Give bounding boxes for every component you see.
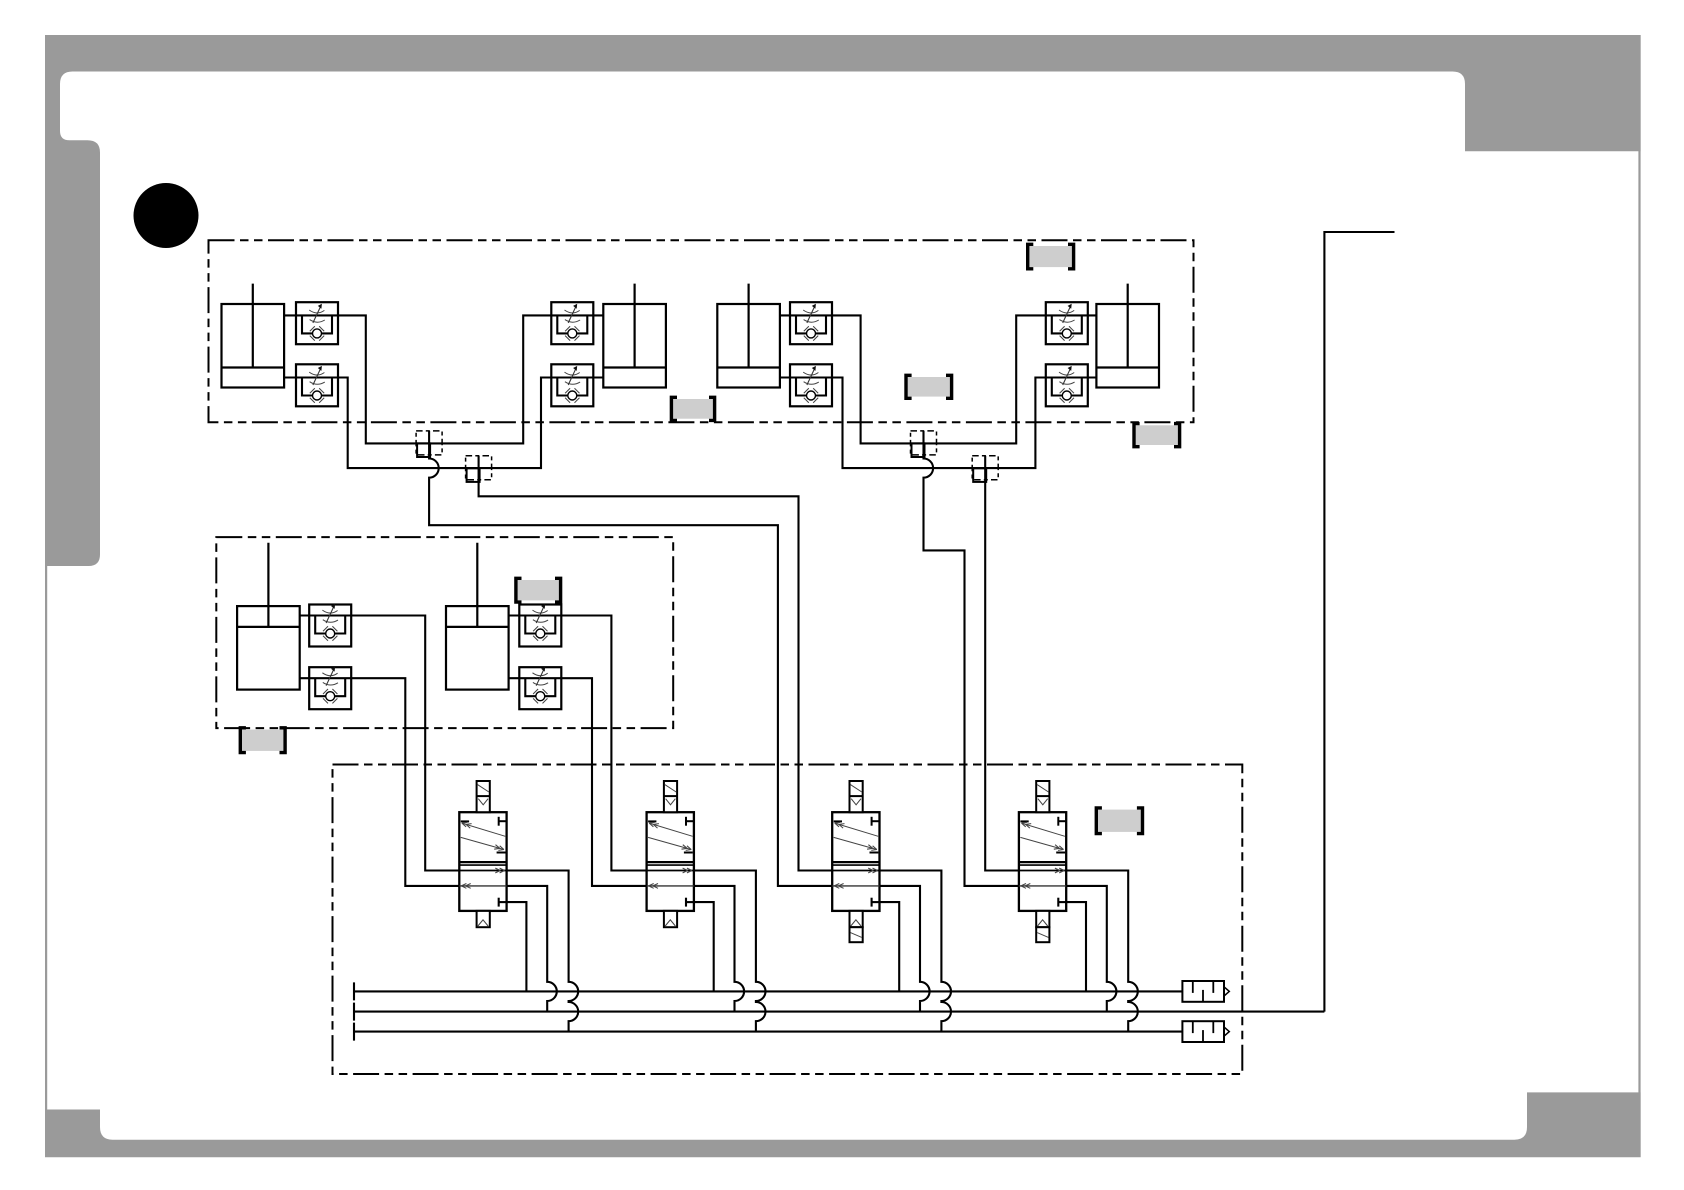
wire: cylinder C1 top - FCV1A - junction J1 - FCV2A - cylinder C2 top <box>284 315 603 443</box>
wire: valve V4 exhaust stub to bus 1 <box>1066 902 1086 991</box>
wire: junction J1 to valve V3 lower port (A line) <box>429 457 832 886</box>
flow control valve FCV6A <box>519 604 561 647</box>
wire: cylinder C1 bottom - FCV1B - junction J2 - FCV2B - cylinder C2 bottom <box>284 378 603 469</box>
wire: bus line 1 <box>354 982 1182 1000</box>
page marker dot <box>134 183 199 248</box>
wire: cylinder C6 bottom - FCV6B - valve V2 lower port, through V2 to bus 2 <box>509 678 744 1011</box>
enclosure box 3 (valve group) <box>333 765 1243 1075</box>
label L2 <box>906 375 952 398</box>
enclosure box 2 (middle cylinder group) <box>216 537 673 728</box>
flow control valve FCV4B <box>1046 364 1088 406</box>
wire: cylinder C3 bottom - FCV3B - junction J4 - FCV4B - cylinder C4 bottom <box>780 378 1097 469</box>
flow control valve FCV2A <box>551 302 593 344</box>
wire: junction J4 to valve V4 upper port (B line) <box>985 482 1019 871</box>
directional valve V3 <box>832 781 879 942</box>
label L3 <box>671 397 715 420</box>
junction J1 <box>416 431 442 457</box>
wire: junction J3 to valve V4 lower port (A line) <box>924 457 1019 886</box>
cylinder C3 <box>717 284 780 388</box>
wire: bus line 2 <box>354 1003 1324 1021</box>
cylinder C2 <box>603 284 666 388</box>
directional valve V1 <box>459 781 506 927</box>
label L1 <box>1027 244 1074 268</box>
directional valve V2 <box>647 781 694 927</box>
wire: valve V2 exhaust stub to bus 1 <box>694 902 714 991</box>
flow control valve FCV5B <box>309 667 351 710</box>
cylinder C1 <box>222 284 285 388</box>
flow control valve FCV3B <box>790 364 832 406</box>
wire: cylinder C3 top - FCV3A - junction J3 - FCV4A - cylinder C4 top <box>780 315 1097 443</box>
silencer unit S1 <box>1182 981 1229 1002</box>
silencer unit S2 <box>1182 1021 1229 1042</box>
flow control valve FCV1B <box>296 364 338 406</box>
label L7 <box>1096 808 1143 834</box>
wire: valve V3 upper port through to bus 3 <box>880 871 952 1032</box>
wire: bus line 3 <box>354 1023 1182 1041</box>
label L5 <box>516 578 562 602</box>
wire: cylinder C6 top - FCV6A - valve V2 upper port, through V2 to bus 3 <box>509 616 766 1032</box>
wire: valve V4 upper port through to bus 3 <box>1066 871 1138 1032</box>
wire: valve V1 exhaust stub to bus 1 <box>507 902 527 991</box>
wire: cylinder C5 bottom - FCV5B - valve V1 lower port, through V1 to bus 2 <box>300 678 557 1011</box>
enclosure box 1 (upper cylinder group) <box>209 240 1194 422</box>
flow control valve FCV1A <box>296 302 338 344</box>
wire: valve V4 lower port through to bus 2 <box>1066 886 1116 1012</box>
junction J3 <box>911 431 937 457</box>
cylinder C4 <box>1096 284 1159 388</box>
flow control valve FCV2B <box>551 364 593 406</box>
cylinder C5 <box>237 543 300 690</box>
junction J2 <box>466 456 492 482</box>
cylinder C6 <box>446 543 509 690</box>
label L4 <box>1134 424 1180 447</box>
junction J4 <box>972 456 998 482</box>
wire: valve V3 exhaust stub to bus 1 <box>880 902 900 991</box>
flow control valve FCV5A <box>309 604 351 647</box>
flow control valve FCV6B <box>519 667 561 710</box>
wire: bus 2 riser to top right <box>1324 232 1394 1012</box>
directional valve V4 <box>1019 781 1066 942</box>
wire: valve V3 lower port through to bus 2 <box>880 886 930 1012</box>
label L6 <box>240 728 286 753</box>
flow control valve FCV3A <box>790 302 832 344</box>
wire: cylinder C5 top - FCV5A - valve V1 upper port, through V1 to bus 3 <box>300 616 578 1032</box>
flow control valve FCV4A <box>1046 302 1088 344</box>
wire: junction J2 to valve V3 upper port (B line) <box>479 482 833 871</box>
